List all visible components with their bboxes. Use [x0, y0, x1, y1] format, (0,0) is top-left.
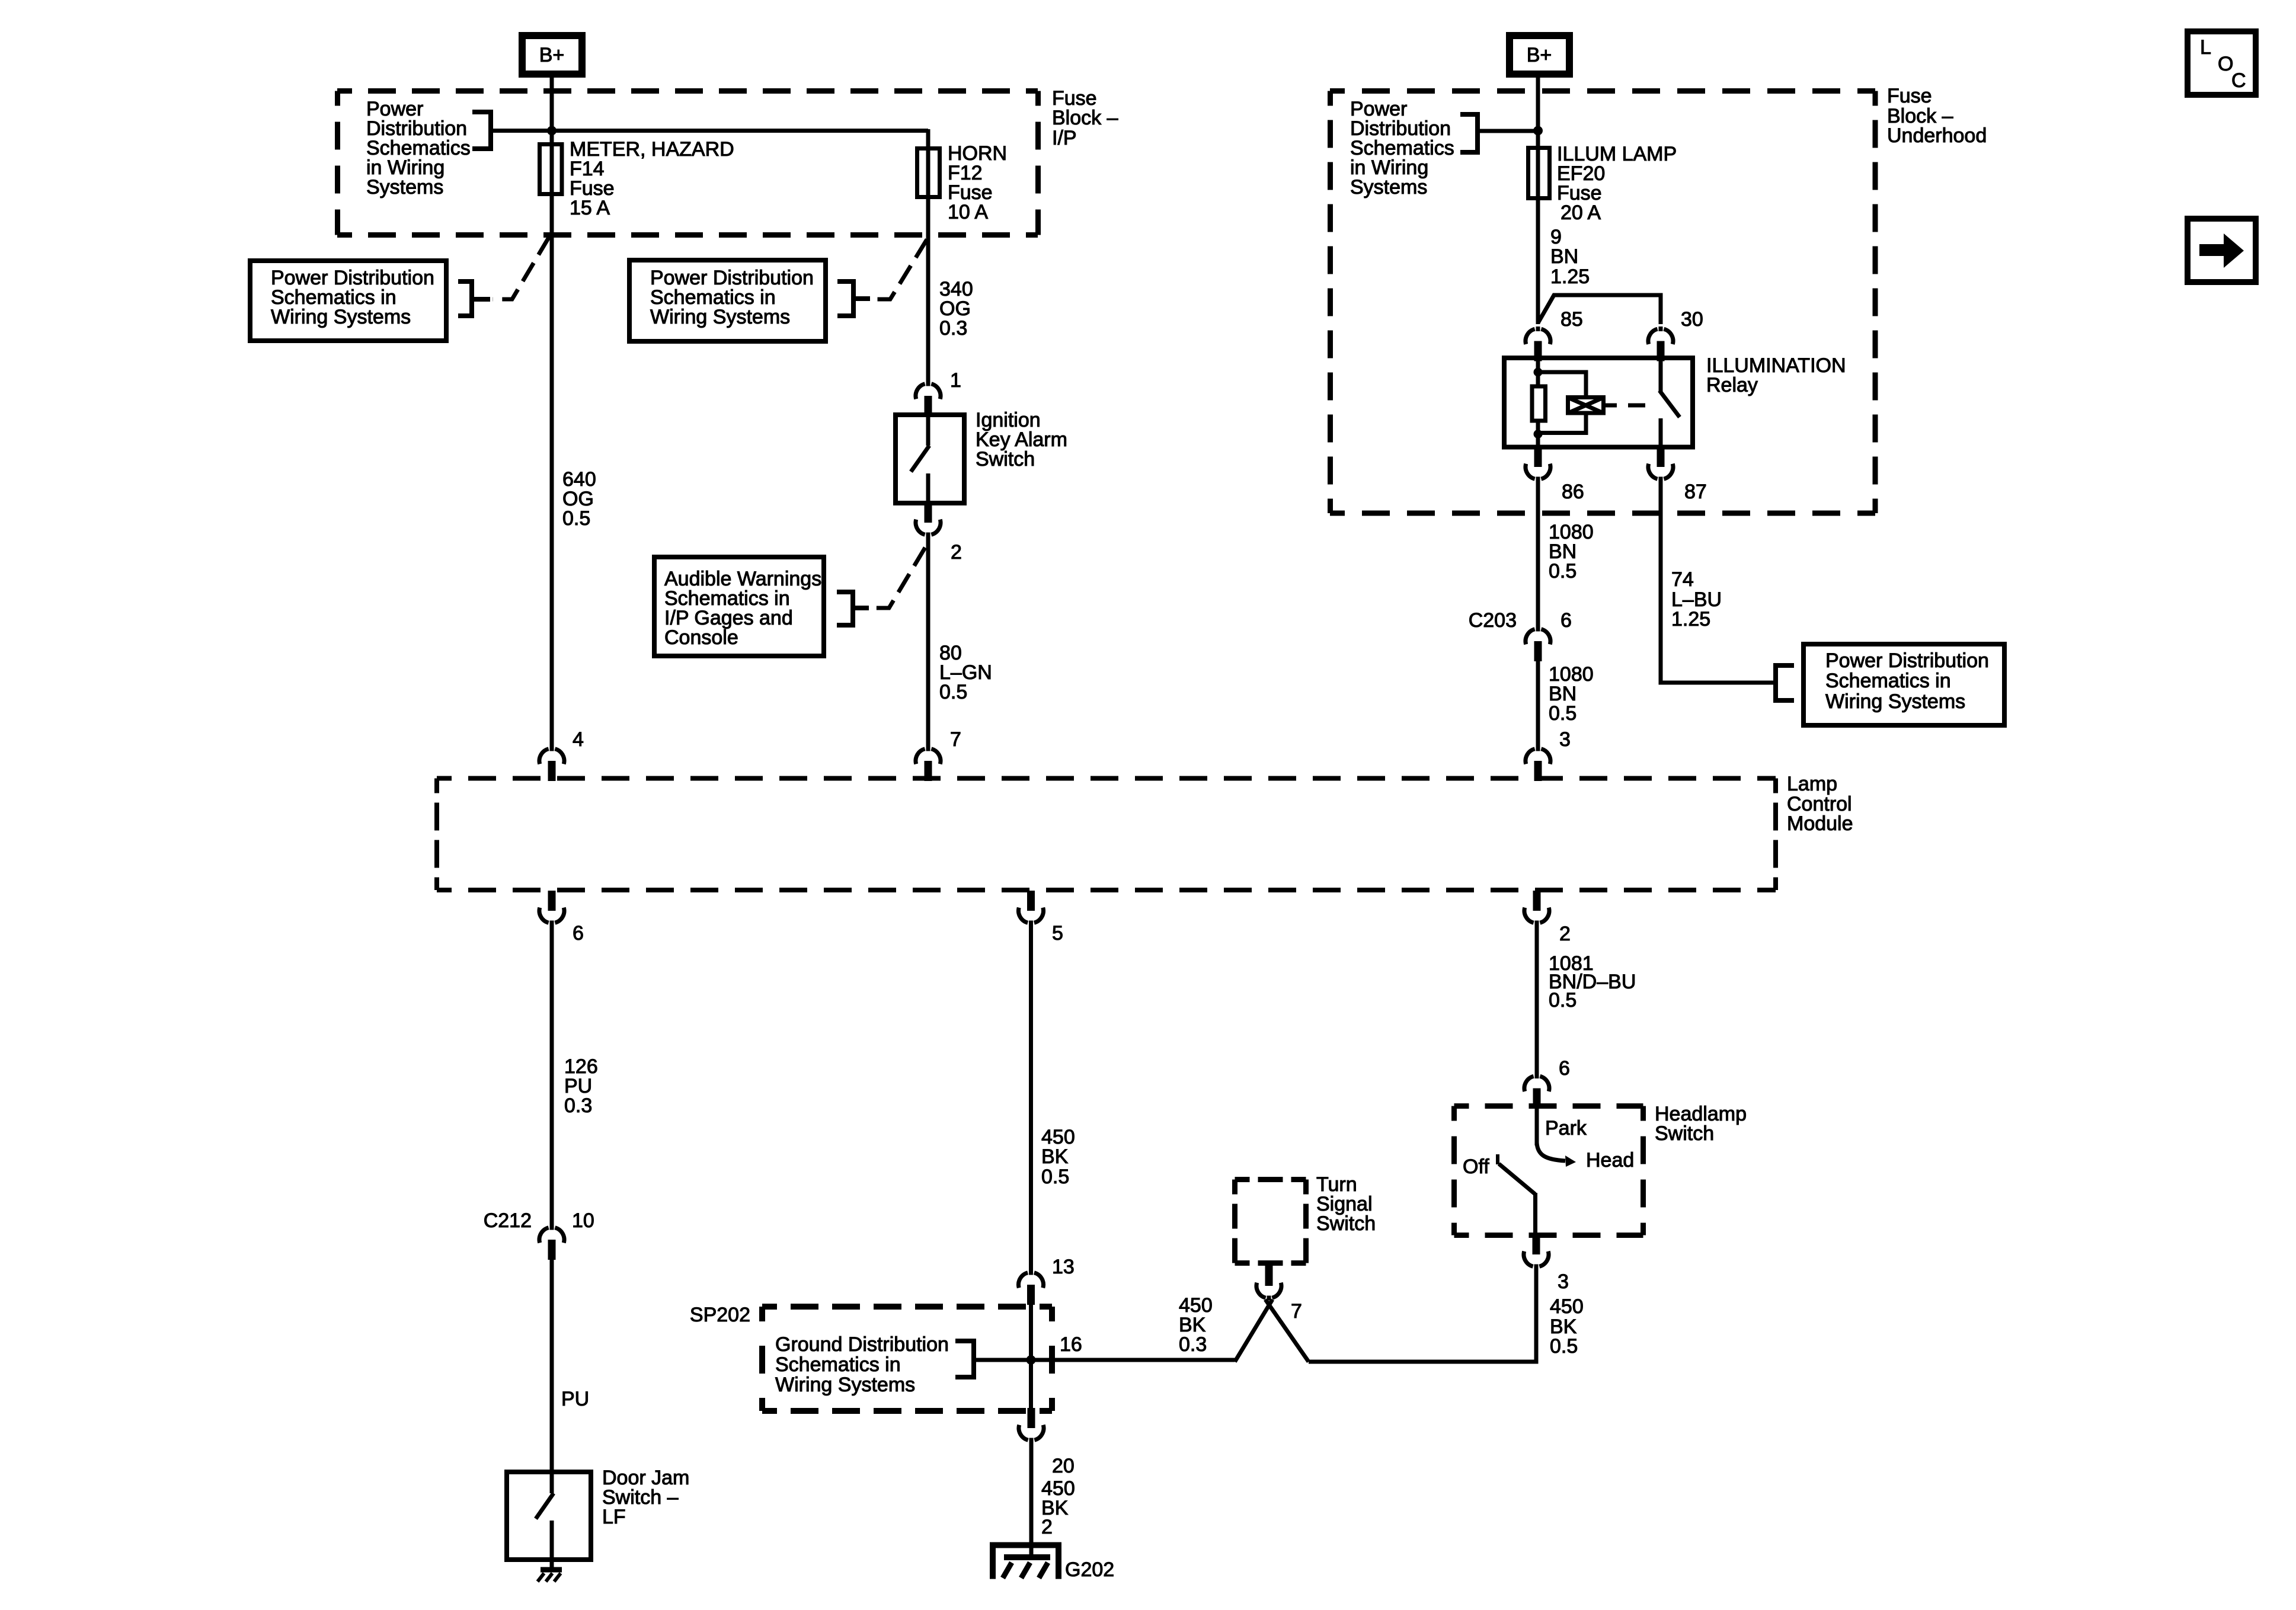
- wire label 450 BK 0.5 center: [1041, 1126, 1075, 1188]
- ignition key alarm switch label: [976, 409, 1067, 470]
- wire 87 down and right to ref box: [1661, 482, 1776, 683]
- svg-text:6: 6: [573, 922, 584, 945]
- wire label 74 L-BU 1.25: [1671, 568, 1722, 630]
- C212 pin 10 label: [572, 1209, 594, 1232]
- svg-text:4: 4: [573, 728, 584, 751]
- headlamp switch blade: [1499, 1164, 1535, 1194]
- wire label 450 BK 0.3: [1179, 1294, 1213, 1356]
- wire C203 to module pin 3: [1536, 659, 1540, 747]
- svg-text:20 A: 20 A: [1560, 201, 1601, 224]
- connector relay 30: [1648, 327, 1673, 361]
- relay contact blade: [1659, 391, 1680, 417]
- wire bracket to junction right: [1478, 129, 1538, 133]
- wire label 1081 BN/D-BU 0.5: [1549, 952, 1636, 1012]
- svg-text:85: 85: [1560, 308, 1583, 331]
- bracket B4: [837, 592, 869, 625]
- ignition switch blade: [911, 446, 929, 472]
- svg-text:0.3: 0.3: [564, 1094, 592, 1117]
- svg-text:10 A: 10 A: [948, 201, 988, 223]
- power distribution note (inside underhood block): [1350, 98, 1454, 199]
- door jam switch box: [507, 1472, 591, 1560]
- connector headlamp 6: [1524, 1074, 1549, 1109]
- wire headlamp 3 down to crossover: [1309, 1269, 1536, 1362]
- svg-text:0.5: 0.5: [562, 507, 590, 530]
- wire resistor to relay 86: [1536, 423, 1540, 450]
- wire crossover left diagonal: [1235, 1299, 1273, 1362]
- headlamp switch lower lead: [1533, 1193, 1537, 1237]
- svg-text:G202: G202: [1065, 1558, 1114, 1581]
- connector headlamp 3: [1524, 1234, 1549, 1269]
- pin 3 label: [1559, 728, 1571, 751]
- connector pin 2: [916, 502, 941, 537]
- svg-text:Schematics in: Schematics in: [1825, 670, 1951, 692]
- wire connector 20 to ground: [1029, 1443, 1034, 1559]
- svg-text:1.25: 1.25: [1550, 265, 1590, 288]
- pin 5 label: [1052, 922, 1063, 945]
- connector module pin 3: [1526, 747, 1550, 782]
- bracket B5: [1460, 114, 1478, 152]
- node junction left: [547, 126, 557, 136]
- audible warnings ref box: [654, 557, 824, 656]
- svg-text:BK: BK: [1041, 1145, 1069, 1168]
- relay contact upper lead: [1659, 359, 1663, 392]
- Head label: [1586, 1149, 1634, 1172]
- svg-text:3: 3: [1559, 728, 1571, 751]
- wire 86 down to C203: [1536, 482, 1540, 627]
- connector relay 87: [1648, 447, 1673, 482]
- power distribution ref box B: [629, 260, 826, 341]
- node relay coil top: [1534, 368, 1543, 377]
- fuse F14: [540, 145, 562, 194]
- svg-text:Fuse: Fuse: [1887, 85, 1932, 107]
- connector turn signal 7: [1256, 1266, 1281, 1301]
- svg-text:Switch: Switch: [976, 448, 1035, 470]
- ignition key alarm switch box: [896, 415, 964, 503]
- fuse block underhood label: [1887, 85, 1987, 147]
- pin 16 label: [1060, 1333, 1082, 1356]
- svg-text:0.3: 0.3: [1179, 1333, 1207, 1356]
- fuse F12: [917, 149, 940, 197]
- wire label 640 OG 0.5: [562, 468, 596, 530]
- dashed breakout to pin2 wire: [871, 548, 925, 608]
- svg-text:Park: Park: [1545, 1117, 1587, 1140]
- headlamp switch park-head arc: [1537, 1142, 1576, 1167]
- svg-text:Systems: Systems: [1350, 176, 1427, 199]
- svg-text:I/P: I/P: [1052, 127, 1077, 149]
- fuse EF20 label: [1557, 143, 1677, 224]
- pin 2 label lower: [1559, 923, 1571, 945]
- svg-text:Wiring Systems: Wiring Systems: [271, 306, 411, 328]
- wire label 9 BN 1.25: [1550, 226, 1590, 288]
- wire bracket to SP202 junction: [974, 1358, 1235, 1362]
- illumination relay label: [1706, 354, 1846, 396]
- headlamp pin 6 label: [1559, 1057, 1570, 1080]
- svg-text:450: 450: [1550, 1295, 1584, 1318]
- svg-text:0.5: 0.5: [1041, 1166, 1069, 1188]
- fuse block I/P dashed box: [337, 91, 1038, 235]
- wire B+ right down to relay 85: [1536, 78, 1540, 324]
- resistor inside relay: [1532, 386, 1546, 421]
- svg-text:0.5: 0.5: [1549, 560, 1576, 582]
- svg-text:1.25: 1.25: [1671, 608, 1710, 630]
- svg-text:13: 13: [1052, 1256, 1075, 1278]
- turn signal switch label: [1316, 1173, 1376, 1235]
- connector C212: [539, 1225, 564, 1260]
- connector pin 1: [916, 382, 941, 417]
- svg-text:Systems: Systems: [366, 176, 443, 199]
- connector module pin 4: [539, 747, 564, 782]
- wire label 1080 BN 0.5 upper: [1549, 521, 1594, 582]
- wire C212 down to door jam switch: [550, 1257, 554, 1472]
- svg-text:3: 3: [1558, 1270, 1569, 1293]
- bracket B2: [458, 281, 490, 316]
- pin 85 label: [1560, 308, 1583, 331]
- bracket B6: [1776, 665, 1794, 700]
- bracket B1: [472, 112, 491, 149]
- svg-text:0.5: 0.5: [1549, 989, 1576, 1012]
- svg-text:Switch: Switch: [1655, 1122, 1714, 1145]
- svg-text:Ground Distribution: Ground Distribution: [775, 1333, 949, 1356]
- lamp control module label: [1787, 773, 1853, 835]
- connector 13: [1018, 1270, 1043, 1305]
- wire module pin6 down to C212: [550, 926, 554, 1225]
- connector relay 86: [1526, 447, 1550, 482]
- lamp control module dashed box: [437, 779, 1776, 891]
- wire pin2 down to module pin 7: [926, 537, 930, 747]
- svg-text:74: 74: [1671, 568, 1694, 591]
- svg-text:Lamp: Lamp: [1787, 773, 1837, 795]
- coil branch loop: [1538, 372, 1586, 433]
- wire top horizontal to F12: [552, 129, 928, 133]
- pin 30 label: [1681, 308, 1703, 331]
- C203 pin 6 label: [1560, 609, 1572, 632]
- C212 label: [484, 1209, 532, 1232]
- svg-text:Relay: Relay: [1706, 374, 1758, 396]
- door jam switch upper contact: [550, 1472, 554, 1493]
- wire relay 85 to resistor: [1536, 359, 1540, 385]
- svg-text:0.3: 0.3: [939, 317, 967, 340]
- SP202 dashed box: [762, 1307, 1052, 1411]
- svg-text:6: 6: [1559, 1057, 1570, 1080]
- fuse F14 label: [570, 138, 734, 219]
- svg-text:86: 86: [1562, 481, 1584, 503]
- B+ terminal left: [519, 32, 586, 78]
- svg-text:5: 5: [1052, 922, 1063, 945]
- wire label 340 OG 0.3: [939, 278, 973, 340]
- wire crossover right diagonal: [1265, 1299, 1309, 1362]
- B+ terminal right: [1506, 32, 1573, 78]
- svg-text:2: 2: [951, 541, 962, 564]
- svg-text:Module: Module: [1787, 812, 1853, 835]
- Park label: [1545, 1117, 1587, 1140]
- svg-text:10: 10: [572, 1209, 594, 1232]
- svg-text:20: 20: [1052, 1455, 1075, 1477]
- LOC box: [2188, 31, 2256, 95]
- wire B+ left down to module pin 4: [550, 78, 554, 747]
- connector C203: [1526, 627, 1550, 662]
- headlamp switch park lead: [1535, 1106, 1539, 1145]
- svg-text:15 A: 15 A: [570, 197, 610, 219]
- wire label 80 L-GN 0.5: [939, 642, 992, 703]
- relay contact lower lead: [1659, 418, 1663, 450]
- svg-text:87: 87: [1684, 481, 1707, 503]
- connector relay 85: [1526, 327, 1550, 361]
- G202 label: [1065, 1558, 1114, 1581]
- Off label: [1463, 1156, 1489, 1178]
- dashed breakout to F12 wire: [872, 239, 927, 299]
- svg-text:16: 16: [1060, 1333, 1082, 1356]
- ground door jam switch: [538, 1570, 562, 1582]
- connector module pin 5: [1018, 891, 1043, 926]
- wire module pin2 down to headlamp: [1535, 926, 1539, 1074]
- wire bracket to junction: [491, 129, 552, 133]
- crossover pin 7 label: [1291, 1300, 1302, 1323]
- dashed breakout to F14 wire: [493, 236, 549, 299]
- connector module pin 7: [916, 747, 941, 782]
- pin 7 label: [950, 728, 961, 751]
- svg-text:Switch: Switch: [1316, 1212, 1376, 1235]
- wire label 450 BK 2: [1041, 1477, 1075, 1538]
- door jam switch lower lead to ground: [550, 1521, 554, 1567]
- svg-text:LF: LF: [602, 1506, 626, 1528]
- wire F12 down to connector 1: [926, 129, 930, 382]
- svg-text:6: 6: [1560, 609, 1572, 632]
- pin 87 label: [1684, 481, 1707, 503]
- power distribution ref box A: [250, 261, 446, 341]
- headlamp pin 3 label: [1558, 1270, 1569, 1293]
- pin 4 label: [573, 728, 584, 751]
- pin 2 label: [951, 541, 962, 564]
- svg-text:Block –: Block –: [1052, 107, 1118, 129]
- fuse F12 label: [948, 142, 1007, 223]
- wire label PU: [561, 1388, 589, 1410]
- svg-text:30: 30: [1681, 308, 1703, 331]
- svg-text:2: 2: [1041, 1516, 1053, 1538]
- svg-text:C: C: [2231, 69, 2246, 92]
- ignition switch lower contact: [926, 473, 930, 504]
- headlamp switch dashed box: [1454, 1106, 1643, 1235]
- svg-text:SP202: SP202: [690, 1304, 750, 1326]
- pin 86 label: [1562, 481, 1584, 503]
- ground distribution note: [775, 1333, 949, 1396]
- fuse block underhood dashed box: [1330, 91, 1875, 514]
- wire module pin5 down to connector 13: [1029, 926, 1033, 1270]
- pin 13 label: [1052, 1256, 1075, 1278]
- door jam switch label: [602, 1467, 689, 1528]
- arrow box: [2188, 219, 2256, 282]
- svg-text:1: 1: [950, 369, 961, 392]
- power distribution ref box right: [1803, 644, 2004, 725]
- wire 13 through SP202 junction down: [1029, 1304, 1033, 1410]
- connector module pin 6: [539, 891, 564, 926]
- connector 20: [1019, 1408, 1044, 1443]
- C203 label: [1469, 609, 1517, 632]
- node SP202 junction: [1027, 1355, 1036, 1365]
- svg-text:Underhood: Underhood: [1887, 124, 1987, 147]
- illumination relay box: [1504, 358, 1693, 447]
- node junction right: [1533, 126, 1543, 136]
- node relay coil bottom: [1534, 430, 1543, 438]
- svg-text:Wiring Systems: Wiring Systems: [650, 306, 790, 328]
- pin 20 label: [1052, 1455, 1075, 1477]
- svg-text:7: 7: [950, 728, 961, 751]
- coil actuator lead: [1606, 404, 1617, 408]
- svg-text:BN: BN: [1550, 245, 1578, 268]
- bracket B7: [955, 1341, 974, 1377]
- svg-text:0.5: 0.5: [1550, 1335, 1578, 1358]
- svg-text:Wiring Systems: Wiring Systems: [1825, 690, 1965, 713]
- svg-text:Wiring Systems: Wiring Systems: [775, 1374, 915, 1396]
- svg-text:Power Distribution: Power Distribution: [1825, 649, 1989, 672]
- svg-text:B+: B+: [1527, 44, 1552, 66]
- wire label 1080 BN 0.5 lower: [1549, 663, 1594, 725]
- svg-text:Head: Head: [1586, 1149, 1634, 1172]
- svg-text:C212: C212: [484, 1209, 532, 1232]
- svg-text:Off: Off: [1463, 1156, 1489, 1178]
- turn signal switch dashed box: [1235, 1180, 1306, 1263]
- svg-text:0.5: 0.5: [1549, 702, 1576, 725]
- fuse block I/P label: [1052, 87, 1118, 149]
- svg-text:Schematics in: Schematics in: [775, 1353, 901, 1376]
- connector module pin 2: [1524, 891, 1549, 926]
- wire label 126 PU 0.3: [564, 1055, 598, 1117]
- svg-text:2: 2: [1559, 923, 1571, 945]
- svg-text:PU: PU: [561, 1388, 589, 1410]
- pin 1 label: [950, 369, 961, 392]
- svg-text:L: L: [2200, 36, 2211, 59]
- bracket B3: [837, 281, 870, 316]
- svg-text:0.5: 0.5: [939, 681, 967, 703]
- coil box symbol: [1568, 398, 1604, 414]
- svg-text:C203: C203: [1469, 609, 1517, 632]
- branch wire to relay 30: [1538, 295, 1661, 324]
- svg-text:B+: B+: [539, 44, 565, 66]
- fuse EF20: [1528, 148, 1550, 199]
- power distribution note (inside I/P block): [366, 98, 471, 199]
- ground G202 symbol: [993, 1545, 1059, 1579]
- mechanical link dash: [1628, 404, 1645, 408]
- headlamp switch label: [1655, 1103, 1747, 1145]
- pin 6 label: [573, 922, 584, 945]
- headlamp switch off contact tick: [1496, 1154, 1499, 1164]
- svg-text:Console: Console: [664, 626, 738, 649]
- svg-text:7: 7: [1291, 1300, 1302, 1323]
- wire label 450 BK 0.5 right: [1550, 1295, 1584, 1358]
- ignition switch upper contact: [926, 415, 930, 446]
- SP202 label: [690, 1304, 750, 1326]
- door jam switch blade: [536, 1493, 554, 1519]
